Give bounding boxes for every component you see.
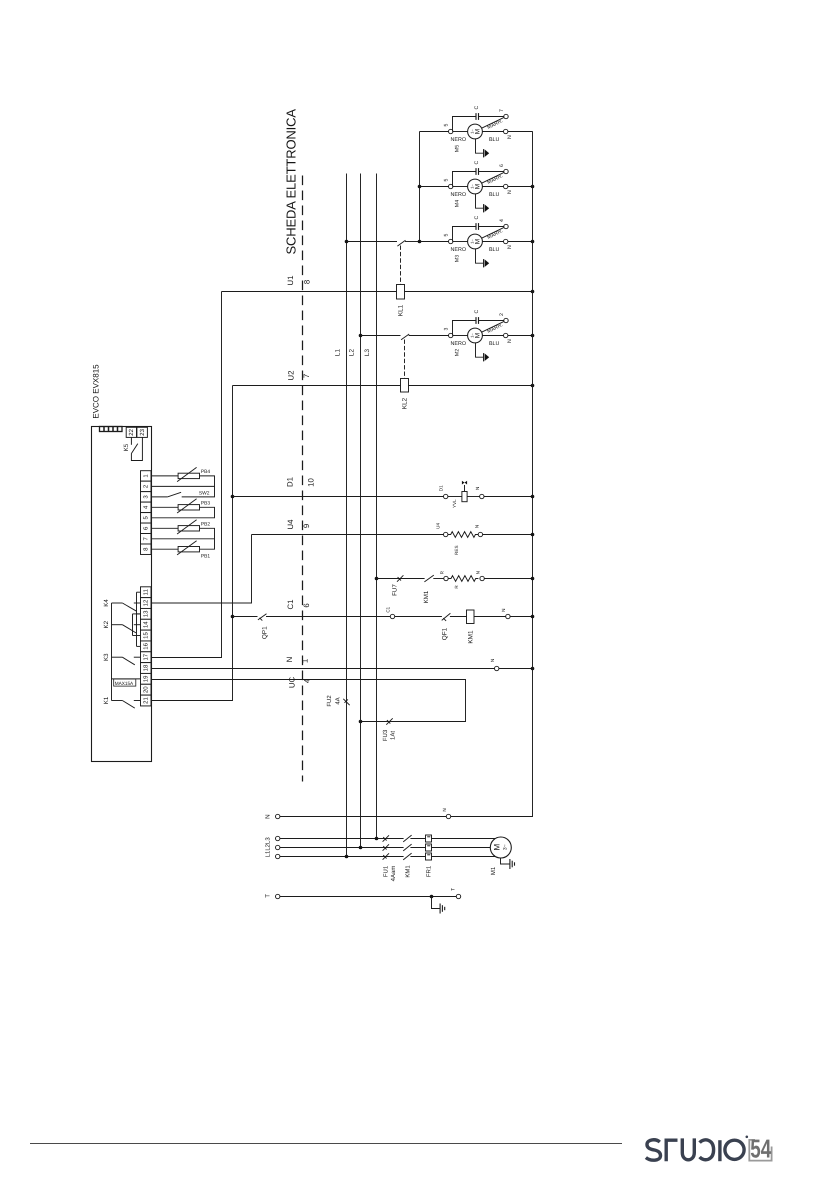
terminal bridge 11-13-16 — [137, 592, 141, 646]
svg-text:12: 12 — [142, 599, 149, 606]
klixon KL2 — [401, 340, 409, 410]
svg-text:M1: M1 — [490, 866, 497, 875]
svg-text:K4: K4 — [103, 599, 110, 607]
svg-text:PB1: PB1 — [201, 553, 211, 559]
fuse FU1 4Aam three poles — [383, 835, 397, 881]
bus L1 — [346, 174, 348, 857]
MAX15A label box — [114, 679, 136, 686]
svg-text:8: 8 — [303, 280, 312, 284]
svg-text:15: 15 — [142, 632, 149, 639]
bus L2 — [360, 174, 362, 848]
U4 row N terminal and wire to bus — [475, 525, 535, 537]
svg-text:KM1: KM1 — [467, 630, 474, 644]
fuse FU7 — [391, 575, 403, 596]
svg-text:C1: C1 — [385, 606, 390, 612]
bottom neutral terminal N — [265, 808, 451, 819]
svg-text:FU1: FU1 — [383, 865, 390, 877]
svg-text:4: 4 — [303, 678, 312, 683]
svg-text:N: N — [265, 814, 272, 818]
svg-text:KM1: KM1 — [423, 590, 430, 603]
earth terminal T row — [265, 888, 461, 899]
right neutral bus — [451, 132, 533, 817]
svg-text:22: 22 — [128, 428, 135, 435]
contactor KM1 three poles — [403, 835, 411, 878]
svg-text:L1: L1 — [334, 349, 341, 357]
svg-text:QF1: QF1 — [441, 627, 448, 640]
svg-text:18: 18 — [142, 664, 149, 671]
svg-text:K5: K5 — [123, 443, 130, 451]
svg-text:FU7: FU7 — [391, 584, 398, 596]
relay contact K2 — [103, 620, 141, 633]
junction dots motors to bus — [531, 185, 535, 189]
three phase input terminals L1 L2 L3 — [264, 836, 279, 858]
motor M3 — [444, 215, 533, 267]
R row N terminal and wire to bus — [476, 571, 535, 581]
terminal bridge 13-15 — [133, 614, 141, 636]
svg-text:D1: D1 — [286, 477, 295, 487]
rail to terminal 19 wire — [112, 678, 141, 680]
contactor coil KM1 — [467, 610, 506, 644]
C1 row wire with QP1 — [231, 614, 391, 639]
svg-text:14: 14 — [142, 621, 149, 628]
relay contact K1 — [103, 696, 141, 708]
R row from bus L3 — [375, 577, 425, 581]
svg-text:MAX15A: MAX15A — [115, 681, 134, 686]
svg-text:4A: 4A — [334, 697, 341, 704]
svg-text:7: 7 — [302, 374, 311, 378]
svg-text:KL1: KL1 — [398, 304, 405, 316]
svg-text:13: 13 — [142, 610, 149, 617]
svg-text:3~: 3~ — [503, 844, 509, 850]
motor M5 — [444, 105, 533, 157]
svg-text:11: 11 — [142, 588, 149, 595]
U1 row wire — [222, 291, 397, 293]
contactor contact KM1 on R row — [423, 575, 444, 603]
svg-text:U4: U4 — [436, 523, 441, 529]
board boundary dashed line — [302, 176, 304, 782]
probe PB3 loop — [151, 499, 215, 518]
svg-text:T: T — [451, 888, 457, 891]
svg-text:N: N — [476, 571, 481, 574]
U4 row wire — [252, 523, 448, 537]
phase wires to motor M1 — [280, 837, 496, 859]
relay contact K5 — [123, 437, 143, 460]
svg-text:K2: K2 — [103, 620, 110, 628]
svg-text:1At: 1At — [389, 731, 396, 740]
breaker QF1 — [441, 613, 467, 640]
valve coil YVL — [452, 481, 467, 508]
svg-text:9: 9 — [302, 524, 311, 528]
svg-text:21: 21 — [142, 697, 149, 704]
svg-text:SW2: SW2 — [199, 491, 210, 497]
svg-text:N: N — [475, 525, 480, 528]
N row terminal circle — [495, 666, 499, 670]
svg-text:6: 6 — [302, 603, 311, 607]
D1 row N terminal and wire to bus — [467, 487, 534, 499]
svg-text:N: N — [285, 657, 294, 663]
N row wire to bus — [499, 668, 533, 670]
svg-text:KM1: KM1 — [405, 865, 412, 878]
KL1 contact on motor feed — [345, 240, 420, 246]
comb connector — [100, 427, 123, 432]
EVCO EVX815 controller block — [91, 364, 151, 762]
defrost heater RES — [448, 532, 478, 555]
svg-text:6: 6 — [499, 164, 505, 167]
fuse FU2 4A on bus L1 — [326, 695, 350, 707]
svg-text:20: 20 — [142, 686, 149, 693]
terminal 22 — [126, 427, 136, 437]
svg-text:N: N — [490, 659, 495, 662]
N row wire from terminal 18 — [151, 668, 495, 670]
footer rule — [30, 1143, 622, 1145]
svg-text:L3: L3 — [364, 349, 371, 357]
svg-text:U2: U2 — [287, 371, 296, 381]
U1 riser wire from terminal 17 — [151, 292, 222, 658]
svg-text:FU2: FU2 — [326, 695, 333, 707]
svg-text:FU3: FU3 — [382, 729, 389, 741]
relay contact K4 — [103, 599, 141, 612]
svg-text:1: 1 — [301, 659, 310, 663]
svg-text:54: 54 — [750, 1134, 771, 1164]
svg-text:M3: M3 — [455, 255, 461, 262]
svg-text:PB4: PB4 — [201, 469, 211, 475]
svg-text:N: N — [442, 808, 447, 811]
svg-text:PB2: PB2 — [201, 522, 211, 528]
C1 terminal circle — [385, 606, 441, 618]
thermal overload FR1 — [425, 835, 432, 877]
motor M2 — [444, 309, 533, 361]
svg-text:T: T — [265, 894, 272, 898]
U4 riser wire from terminal 12 — [151, 535, 252, 604]
svg-text:4Aam: 4Aam — [390, 866, 397, 882]
probe PB1 loop — [151, 539, 215, 560]
svg-text:16: 16 — [142, 642, 149, 649]
svg-text:3: 3 — [444, 328, 450, 331]
switch SW2 — [151, 486, 215, 497]
svg-text:M: M — [492, 844, 501, 851]
bus L3 — [376, 174, 378, 839]
svg-text:2: 2 — [499, 313, 505, 316]
svg-text:SCHEDA ELETTRONICA: SCHEDA ELETTRONICA — [283, 109, 298, 255]
drain heater R — [448, 576, 478, 589]
U2 riser wire from terminal 21 — [151, 386, 233, 701]
earth connection — [432, 897, 445, 914]
relay contact K3 — [103, 653, 141, 665]
motor feed riser to M3 M4 M5 — [418, 132, 449, 244]
svg-text:4: 4 — [499, 219, 505, 222]
svg-text:YVL: YVL — [452, 499, 457, 508]
svg-text:UC: UC — [288, 677, 297, 689]
UC row wire from terminal 19 with loop to L2 — [151, 680, 466, 722]
svg-text:N: N — [475, 487, 480, 490]
klixon KL1 — [397, 246, 405, 317]
svg-text:U4: U4 — [286, 519, 295, 530]
svg-text:QP1: QP1 — [261, 626, 268, 639]
svg-text:N: N — [501, 609, 506, 612]
svg-text:M5: M5 — [455, 145, 461, 152]
svg-text:M4: M4 — [455, 200, 461, 207]
svg-text:C1: C1 — [286, 600, 295, 610]
svg-text:L1L2L3: L1L2L3 — [264, 837, 271, 858]
C1 row N terminal and wire to bus — [501, 609, 534, 619]
svg-text:5: 5 — [444, 179, 450, 182]
probe PB2 loop — [151, 520, 215, 539]
fuse FU3 1At — [386, 718, 392, 724]
svg-text:10: 10 — [307, 478, 316, 487]
D1 row wire — [231, 485, 462, 499]
motor M1 earth — [501, 858, 515, 869]
motor M1 — [490, 837, 511, 875]
STUDIO 54 logo — [646, 1136, 748, 1161]
svg-text:RES: RES — [454, 545, 459, 554]
svg-text:U1: U1 — [286, 276, 295, 286]
svg-text:FR1: FR1 — [425, 865, 432, 877]
svg-text:19: 19 — [142, 675, 149, 682]
svg-text:17: 17 — [142, 653, 149, 660]
svg-text:M2: M2 — [455, 349, 461, 356]
svg-text:5: 5 — [444, 234, 450, 237]
svg-text:PB3: PB3 — [201, 501, 211, 507]
R terminal circle — [440, 570, 449, 580]
terminal 23 — [137, 427, 148, 437]
svg-text:7: 7 — [499, 109, 505, 112]
svg-text:K3: K3 — [103, 653, 110, 661]
probe PB4 loop — [151, 467, 215, 486]
svg-text:L2: L2 — [349, 349, 356, 357]
svg-text:K1: K1 — [103, 696, 110, 704]
relay common rail — [111, 603, 113, 701]
svg-text:23: 23 — [139, 428, 146, 435]
KL2 contact on motor M2 feed — [359, 334, 449, 340]
terminal strip 1-8 — [141, 471, 152, 555]
svg-text:D1: D1 — [439, 485, 444, 491]
U2 row wire — [233, 385, 401, 387]
motor M4 — [444, 160, 533, 212]
svg-text:EVCO EVX815: EVCO EVX815 — [91, 364, 100, 419]
terminal strip 11-21 — [141, 587, 152, 706]
svg-text:KL2: KL2 — [402, 397, 409, 409]
svg-text:5: 5 — [444, 124, 450, 127]
